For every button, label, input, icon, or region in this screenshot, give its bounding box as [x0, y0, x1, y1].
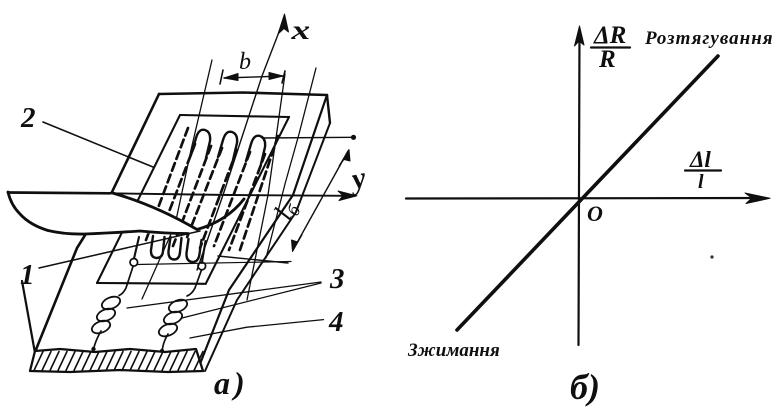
gauge base left edge — [97, 115, 180, 283]
graph horizontal axis arrowhead — [745, 193, 770, 204]
grid top U-turn 1 — [191, 130, 210, 158]
extension line E2 — [247, 74, 285, 300]
y axis arrowhead — [338, 191, 357, 201]
svg-text:ΔR: ΔR — [593, 22, 626, 49]
beam far edge — [159, 93, 327, 96]
l_b top reference line with dot — [262, 136, 353, 139]
svg-text:1: 1 — [20, 259, 35, 291]
leader 1 — [39, 231, 200, 268]
grid dashed strands — [146, 128, 278, 250]
solder dot left — [91, 347, 95, 351]
svg-text:lб: lб — [268, 195, 305, 226]
dimension b arrow line — [224, 76, 283, 78]
speck — [710, 255, 713, 258]
coil left loop3 — [90, 318, 112, 336]
solder dot right — [160, 349, 164, 353]
terminal circle right — [198, 262, 206, 270]
leader 4 — [190, 320, 324, 338]
dimension b tick right — [282, 71, 285, 83]
coil right loop1 — [167, 297, 189, 315]
graph vertical axis — [579, 30, 580, 345]
gauge base bottom edge — [97, 282, 206, 285]
x axis line — [197, 19, 284, 270]
beam left long edge — [35, 94, 159, 352]
grid bottom U-turn 3 — [186, 239, 201, 262]
svg-text:Δl: Δl — [689, 147, 711, 172]
coil right loop3 — [157, 321, 179, 339]
graph horizontal axis — [406, 197, 760, 200]
svg-text:4: 4 — [328, 306, 344, 338]
gauge base right edge — [206, 117, 289, 284]
svg-text:Розтягування: Розтягування — [644, 28, 774, 49]
svg-text:O: O — [587, 201, 603, 226]
coil left loop1 — [100, 294, 122, 312]
leader 3a — [127, 282, 321, 308]
peel arc — [112, 193, 244, 230]
gauge base top edge — [180, 115, 289, 117]
svg-text:R: R — [598, 46, 616, 73]
coil left loop2 — [95, 306, 117, 324]
beam side bottom edge — [205, 123, 330, 371]
grid bottom U-turn 2 — [168, 237, 181, 260]
flap (peeled gauge base) white cover — [8, 192, 197, 234]
grid bottom U-turn 1 — [151, 236, 165, 258]
beam far-right thickness edge — [327, 95, 330, 123]
svg-text:y: y — [346, 161, 369, 197]
y axis line — [110, 193, 348, 196]
l_b bottom reference line — [218, 256, 288, 263]
grid top U-turn 3 — [246, 136, 265, 164]
beam left side face edge — [22, 281, 35, 353]
leader 2 — [43, 122, 153, 167]
lead wire right to coil — [187, 270, 202, 296]
svg-text:b: b — [239, 49, 251, 75]
terminal wire left — [134, 237, 139, 259]
terminal circle left — [130, 259, 138, 267]
dimension b arrowhead right — [269, 73, 283, 80]
svg-text:2: 2 — [20, 102, 36, 134]
l_b arrowhead bottom — [292, 235, 303, 252]
hatch band outline — [30, 349, 203, 372]
terminal wire right — [202, 241, 206, 262]
dimension b tick left — [220, 70, 223, 84]
terminals reference line — [137, 262, 291, 265]
hatch strokes — [34, 352, 203, 371]
extension line E1 — [142, 60, 212, 299]
fraction bar dl/l — [685, 169, 721, 171]
l_b arrowhead top — [339, 150, 350, 167]
svg-text:Зжимання: Зжимання — [407, 340, 500, 361]
x axis arrowhead — [278, 14, 289, 34]
svg-text:а): а) — [214, 365, 249, 401]
l_b dimension line — [293, 151, 348, 250]
coil right loop2 — [162, 309, 184, 327]
svg-text:3: 3 — [329, 263, 345, 295]
lead wire left to coil — [119, 267, 133, 296]
flap top edge — [8, 191, 110, 195]
graph vertical axis arrowhead — [575, 26, 585, 46]
flap bottom curve — [48, 231, 188, 235]
dimension b arrowhead left — [224, 74, 238, 81]
extension line E3 — [266, 68, 316, 258]
svg-text:б): б) — [570, 367, 600, 407]
leader 3b — [182, 283, 321, 318]
grid top U-turn 2 — [218, 132, 237, 160]
wire right coil to beam — [162, 334, 168, 351]
characteristic line — [457, 56, 718, 330]
fraction bar dR/R — [591, 46, 630, 48]
beam right long edge — [198, 95, 327, 369]
wire left coil to beam — [94, 331, 102, 349]
svg-text:x: x — [290, 16, 310, 46]
flap left edge curve — [8, 192, 48, 231]
svg-text:l: l — [698, 171, 704, 193]
